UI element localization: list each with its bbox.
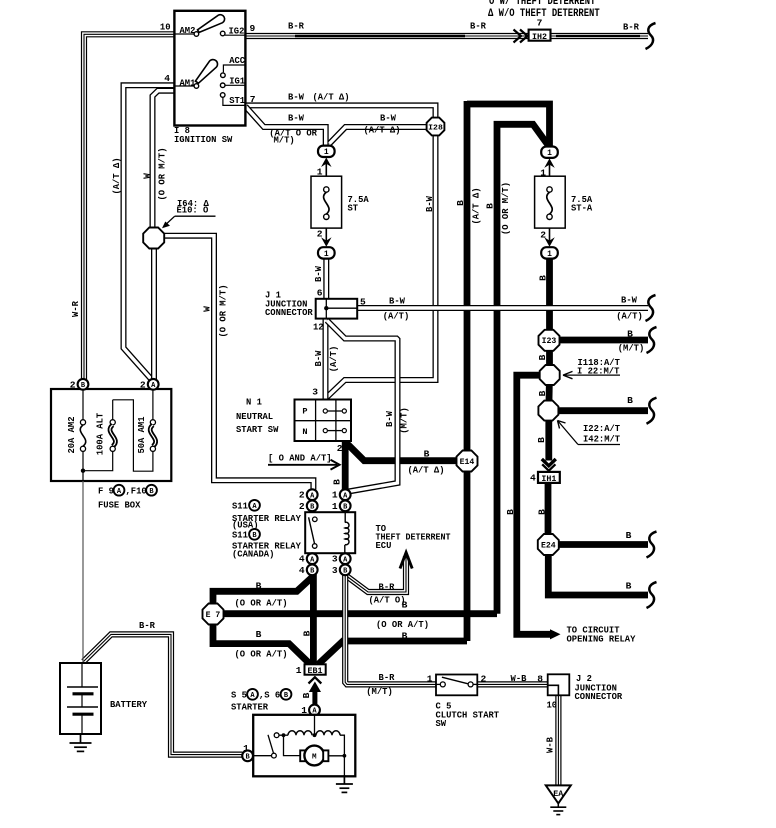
wire B thick octagon I22/I42 down to IH1 chevrons — [545, 411, 552, 461]
svg-text:B-R: B-R — [379, 582, 395, 593]
svg-text:1: 1 — [332, 501, 338, 512]
ignition switch IG1 contact — [220, 83, 225, 88]
wire W-B J2 pin10 to EA ground — [555, 696, 561, 787]
wire B thick N1 pin2 down to starter relay 1A — [342, 439, 349, 490]
svg-text:S11: S11 — [232, 501, 248, 512]
svg-text:B: B — [627, 329, 633, 340]
svg-text:50A AM1: 50A AM1 — [136, 416, 147, 453]
svg-text:4: 4 — [299, 565, 305, 576]
connector I28 octagon — [427, 118, 445, 136]
svg-text:ST1: ST1 — [229, 95, 245, 106]
svg-text:Δ W/O THEFT DETERRENT: Δ W/O THEFT DETERRENT — [488, 8, 600, 20]
svg-text:(A/T Δ): (A/T Δ) — [407, 465, 444, 476]
svg-text:B-W: B-W — [384, 411, 395, 427]
svg-text:O W/ THEFT DETERRENT: O W/ THEFT DETERRENT — [489, 0, 596, 8]
fusible link 100A ALT — [112, 400, 114, 420]
svg-text:B: B — [537, 275, 548, 281]
svg-text:S 5: S 5 — [231, 690, 247, 701]
starter relay terminals — [307, 489, 318, 500]
connector E24 octagon — [538, 534, 559, 555]
svg-text:B-R: B-R — [623, 22, 639, 33]
svg-text:B: B — [536, 437, 547, 443]
svg-text:B: B — [626, 530, 632, 541]
starter pull-in coil — [288, 731, 312, 735]
svg-text:4: 4 — [164, 73, 170, 84]
connector octagon I22/I42 — [538, 401, 558, 421]
svg-text:20A AM2: 20A AM2 — [66, 416, 77, 453]
svg-text:STARTER: STARTER — [231, 702, 268, 713]
svg-text:3: 3 — [312, 387, 318, 398]
svg-text:E10: O: E10: O — [177, 205, 209, 216]
svg-text:(A/T O): (A/T O) — [368, 595, 405, 606]
svg-text:I28: I28 — [428, 124, 443, 132]
wire B thick I23 to octagon I118/I22 — [546, 340, 553, 375]
wire B-R ignition IG2 pin9 to IH2 and right break — [245, 33, 648, 39]
svg-text:N 1: N 1 — [246, 397, 262, 408]
svg-text:E24: E24 — [541, 541, 556, 550]
wire B thick E7 bottom branch to EB1 (O OR A/T) — [213, 624, 311, 665]
svg-text:B-W: B-W — [313, 350, 324, 366]
svg-text:B-W: B-W — [288, 113, 304, 124]
wire B-W ST1 pin7 to I28 (A/T triangle) — [245, 105, 435, 117]
wire B-W J1 pin5 to right break (A/T) — [357, 305, 648, 311]
wire B-W J1 pin12 bypass to starter relay 1A (M/T) — [327, 321, 398, 492]
svg-text:B: B — [537, 354, 548, 360]
starter switch contact — [272, 753, 277, 758]
svg-text:10: 10 — [547, 700, 558, 711]
svg-text:B: B — [256, 581, 262, 592]
wire B thick E24 to right break — [548, 541, 648, 548]
svg-text:IG1: IG1 — [229, 76, 245, 87]
wire W AM1 pin4 to connector I64/E10 octagon (O OR M/T) — [153, 91, 175, 228]
svg-text:ST-A: ST-A — [571, 203, 592, 214]
svg-text:(A/T): (A/T) — [328, 346, 339, 373]
svg-text:I42:M/T: I42:M/T — [583, 434, 620, 445]
break symbol oct2 right — [647, 398, 657, 424]
svg-text:N: N — [302, 427, 307, 437]
junction code IH1 pin 4 — [538, 472, 560, 483]
svg-text:(A/T Δ): (A/T Δ) — [312, 92, 349, 103]
break symbol B-R top right — [646, 23, 656, 49]
svg-text:,S 6: ,S 6 — [259, 690, 280, 701]
svg-text:B-W: B-W — [380, 113, 396, 124]
fuse box internal link ALT top to AM1 bottom — [113, 400, 153, 471]
wire B thick fuse ST-A to I23 octagon segment V4 — [546, 258, 553, 340]
svg-text:B: B — [256, 629, 262, 640]
svg-text:IH1: IH1 — [541, 475, 556, 484]
connector oval 1 above fuse ST-A — [541, 147, 558, 158]
arrow into fuse ST pin1 — [325, 160, 327, 177]
fuse box terminal 2A — [148, 379, 159, 390]
svg-text:10: 10 — [160, 22, 171, 33]
svg-text:W-B: W-B — [511, 673, 527, 684]
svg-text:3: 3 — [332, 554, 338, 565]
battery cells — [81, 663, 83, 687]
svg-text:2: 2 — [70, 379, 76, 390]
svg-text:W-B: W-B — [544, 737, 555, 753]
svg-text:I22:A/T: I22:A/T — [583, 423, 620, 434]
svg-text:F 9: F 9 — [98, 486, 114, 497]
fuse 20A AM2 — [82, 390, 84, 420]
svg-text:W-R: W-R — [70, 301, 81, 317]
svg-text:1: 1 — [547, 149, 552, 158]
starter motor M — [284, 735, 302, 755]
svg-text:AM1: AM1 — [180, 78, 196, 89]
ground EA triangle — [546, 785, 571, 803]
starter ground — [343, 775, 345, 784]
starter terminal 1B — [242, 750, 253, 761]
svg-text:5: 5 — [360, 297, 366, 308]
wire B thick branch from N1 pin2 wire to E14 (A/T triangle) — [347, 443, 459, 461]
svg-text:1: 1 — [324, 250, 329, 259]
svg-text:B-R: B-R — [139, 620, 155, 631]
chevrons into IH1 — [542, 459, 556, 466]
fuse box terminal 2B — [78, 379, 89, 390]
svg-text:EB1: EB1 — [308, 667, 323, 676]
wire B thick E7 middle branch horizontal-1 to V2 (O OR A/T) — [222, 610, 497, 617]
wire B thick octagon I118/I22 to left then down V3 to circuit opening relay arrow — [517, 375, 551, 634]
neutral start switch N1 box — [295, 400, 352, 442]
connector oval 1 below fuse ST — [318, 247, 335, 258]
fusible link 50A AM1 — [152, 390, 154, 420]
connector oval 1 above fuse ST — [318, 146, 335, 157]
svg-text:(A/T): (A/T) — [616, 311, 643, 322]
wire B thick octagon I22/I42 to right break — [549, 407, 648, 414]
svg-text:ACC: ACC — [229, 55, 245, 66]
svg-text:E14: E14 — [460, 458, 475, 467]
starter box — [253, 715, 355, 777]
starter relay coil — [344, 512, 346, 523]
ignition switch AM2 key blade — [198, 15, 225, 33]
svg-text:B: B — [402, 600, 408, 611]
svg-text:I23: I23 — [542, 337, 557, 346]
svg-text:100A ALT: 100A ALT — [94, 413, 105, 456]
svg-text:ST: ST — [348, 203, 359, 214]
fuse 7.5A ST box — [311, 176, 342, 228]
wire B-W fuse ST to J1 pin 6 — [323, 259, 329, 300]
svg-text:W: W — [201, 306, 212, 312]
svg-text:(O OR M/T): (O OR M/T) — [500, 182, 511, 235]
svg-text:7: 7 — [537, 18, 543, 29]
svg-text:E 7: E 7 — [206, 611, 221, 620]
starter relay box S11 — [305, 512, 355, 553]
svg-text:START SW: START SW — [236, 424, 279, 435]
starter hold-in coil — [316, 731, 340, 735]
starter relay switch contacts — [313, 517, 318, 522]
svg-text:2: 2 — [140, 379, 146, 390]
wire B thick vertical V2 (O OR M/T) — [497, 124, 548, 613]
arrow into EB1 from starter 1A — [309, 677, 322, 683]
svg-text:B-W: B-W — [424, 196, 435, 212]
svg-text:7: 7 — [250, 94, 256, 105]
junction connector J2 box — [548, 674, 570, 695]
svg-text:(O OR A/T): (O OR A/T) — [235, 598, 288, 609]
svg-text:6: 6 — [317, 288, 323, 299]
svg-text:4: 4 — [299, 554, 305, 565]
connector E7 octagon — [203, 604, 224, 625]
svg-text:(O OR M/T): (O OR M/T) — [157, 148, 168, 201]
wire B thick horizontal-2 from V1 to EB1 node — [318, 641, 467, 665]
connector I64/E10 octagon — [143, 228, 164, 249]
svg-text:1: 1 — [324, 148, 329, 157]
ignition switch I8 box — [174, 11, 245, 126]
wire B thick IH1 to E24 — [545, 483, 552, 535]
svg-text:1: 1 — [296, 665, 302, 676]
ignition switch ST1 contact pin 7 — [220, 93, 225, 98]
svg-text:(O OR A/T): (O OR A/T) — [376, 619, 429, 630]
break symbol I23 right — [647, 327, 657, 353]
svg-text:B: B — [301, 630, 312, 636]
svg-text:3: 3 — [332, 565, 338, 576]
ground point EB1 box — [305, 664, 326, 674]
svg-text:FUSE BOX: FUSE BOX — [98, 500, 141, 511]
svg-text:B-R: B-R — [379, 672, 395, 683]
starter terminal 1A — [309, 705, 320, 716]
svg-text:(A/T Δ): (A/T Δ) — [111, 157, 122, 194]
battery ground — [80, 734, 82, 743]
connector oval 1 below fuse ST-A — [541, 247, 558, 258]
fuse 7.5A ST-A box — [535, 176, 566, 228]
break symbol E24 right — [647, 532, 657, 558]
svg-text:9: 9 — [250, 23, 256, 34]
svg-text:EA: EA — [553, 790, 563, 799]
wire W connector octagon down to fuse box 2A — [151, 248, 157, 380]
svg-text:1: 1 — [427, 674, 433, 685]
ignition switch AM1 contact — [174, 85, 194, 87]
wire B-W I28 to fuse ST oval (A/T triangle) — [330, 127, 427, 144]
svg-text:B: B — [332, 479, 343, 485]
svg-text:IH2: IH2 — [532, 33, 547, 42]
ignition switch AM1 key blade — [195, 60, 217, 84]
svg-text:CONNECTOR: CONNECTOR — [265, 307, 313, 318]
svg-text:B: B — [627, 395, 633, 406]
junction code IH2 pin 7 — [529, 30, 551, 41]
svg-text:2: 2 — [299, 490, 305, 501]
svg-text:8: 8 — [537, 674, 543, 685]
fuse box — [51, 389, 171, 481]
svg-text:1: 1 — [243, 743, 249, 754]
wire B thick starter relay 4B down to EB1 — [310, 574, 317, 665]
ignition switch ACC contact — [221, 73, 226, 78]
wire B thick E7 top branch to 4B vertical (O OR A/T) — [213, 576, 313, 604]
ignition switch IG2 contact pin 9 — [220, 31, 225, 36]
svg-text:NEUTRAL: NEUTRAL — [236, 411, 273, 422]
wire B thick I23 to right break (M/T) — [550, 337, 649, 344]
svg-text:B: B — [536, 509, 547, 515]
svg-text:(O OR A/T): (O OR A/T) — [235, 649, 288, 660]
svg-text:(A/T Δ): (A/T Δ) — [470, 187, 481, 224]
wire W-B clutch start switch pin2 to J2 pin8 — [477, 681, 547, 687]
svg-text:B-W: B-W — [621, 295, 637, 306]
svg-text:M/T): M/T) — [274, 135, 295, 146]
EA ground symbol — [557, 803, 559, 807]
svg-text:IGNITION SW: IGNITION SW — [174, 134, 233, 145]
svg-text:OPENING RELAY: OPENING RELAY — [567, 634, 636, 645]
svg-text:(A/T): (A/T) — [383, 311, 410, 322]
wire B-R starter relay 3B down to clutch start switch (M/T) — [345, 575, 436, 684]
svg-text:1: 1 — [547, 250, 552, 259]
theft deterrent arrow head — [400, 553, 412, 569]
svg-text:M: M — [312, 754, 317, 762]
svg-text:(M/T): (M/T) — [366, 686, 393, 697]
svg-text:S11: S11 — [232, 530, 248, 541]
N1 N contact — [323, 429, 327, 433]
wire B-R starter relay 3B to theft deterrent ECU arrow (A/T O) — [345, 556, 406, 592]
starter internal wiring — [314, 716, 316, 736]
svg-text:2: 2 — [299, 501, 305, 512]
wire B-W ST1 pin7 to fuse ST oval (A/T O OR M/T) — [245, 106, 325, 146]
svg-text:B: B — [537, 390, 548, 396]
svg-text:B: B — [505, 509, 516, 515]
svg-text:ECU: ECU — [376, 540, 392, 551]
svg-text:2: 2 — [337, 443, 343, 454]
svg-text:B: B — [455, 200, 466, 206]
wire B thick E24 down and right to break — [548, 545, 648, 596]
wire W octagon right branch down to starter relay 2A (O OR M/T) — [164, 236, 314, 490]
connector octagon I118/I22 — [540, 365, 560, 385]
clutch start switch C5 box — [436, 675, 477, 696]
wire B-W J1 pin12 down to N1 pin3 (A/T) — [323, 319, 329, 400]
svg-text:SW: SW — [436, 718, 447, 729]
svg-text:B: B — [402, 631, 408, 642]
ignition switch AM2 contact — [174, 33, 194, 35]
svg-text:CONNECTOR: CONNECTOR — [575, 691, 623, 702]
svg-text:B-W: B-W — [389, 296, 405, 307]
break symbol bottom right — [647, 582, 657, 608]
svg-text:B: B — [301, 692, 312, 698]
svg-text:(O OR M/T): (O OR M/T) — [218, 285, 229, 338]
arrow into fuse ST-A pin1 — [549, 160, 551, 176]
svg-text:(A/T Δ): (A/T Δ) — [363, 125, 400, 136]
N1 P contact — [323, 409, 327, 413]
svg-text:[ O AND A/T]: [ O AND A/T] — [268, 453, 332, 464]
wire B-R battery to starter 1B terminal — [84, 634, 243, 754]
wire B thick vertical V1 fuse ST-A feed / through E14 (A/T triangle) — [467, 104, 550, 146]
svg-text:B-R: B-R — [288, 21, 304, 32]
svg-text:B-W: B-W — [313, 266, 324, 282]
svg-text:12: 12 — [313, 322, 324, 333]
wire B-W I28 down then to N1 pin3 node — [327, 136, 436, 398]
svg-text:B: B — [626, 581, 632, 592]
svg-text:(M/T): (M/T) — [398, 407, 409, 434]
svg-text:B-W: B-W — [288, 92, 304, 103]
svg-text:BATTERY: BATTERY — [110, 699, 147, 710]
break symbol B-W A/T right — [646, 295, 656, 321]
svg-text:1: 1 — [332, 490, 338, 501]
svg-text:(M/T): (M/T) — [618, 343, 645, 354]
wire W AM1 pin4 to fuse box 2A (A/T triangle) — [124, 85, 175, 379]
connector I23 octagon — [539, 330, 560, 351]
wire B thick octagon I118/I22 down to octagon I22/I42 — [545, 375, 553, 411]
connector E14 octagon — [457, 451, 478, 472]
svg-text:B: B — [484, 203, 495, 209]
svg-text:,F10: ,F10 — [126, 486, 147, 497]
svg-text:B: B — [424, 449, 430, 460]
wire W-R AM2 pin10 to fuse box 2B — [84, 34, 174, 380]
svg-text:W: W — [141, 173, 152, 179]
svg-text:(CANADA): (CANADA) — [232, 549, 274, 560]
svg-text:2: 2 — [481, 674, 487, 685]
wire battery feed from fuse box — [82, 481, 84, 663]
svg-text:P: P — [302, 407, 307, 417]
chevrons into IH2 — [514, 30, 522, 43]
svg-text:B-R: B-R — [470, 21, 486, 32]
battery box — [60, 663, 101, 734]
svg-text:4: 4 — [530, 473, 536, 484]
